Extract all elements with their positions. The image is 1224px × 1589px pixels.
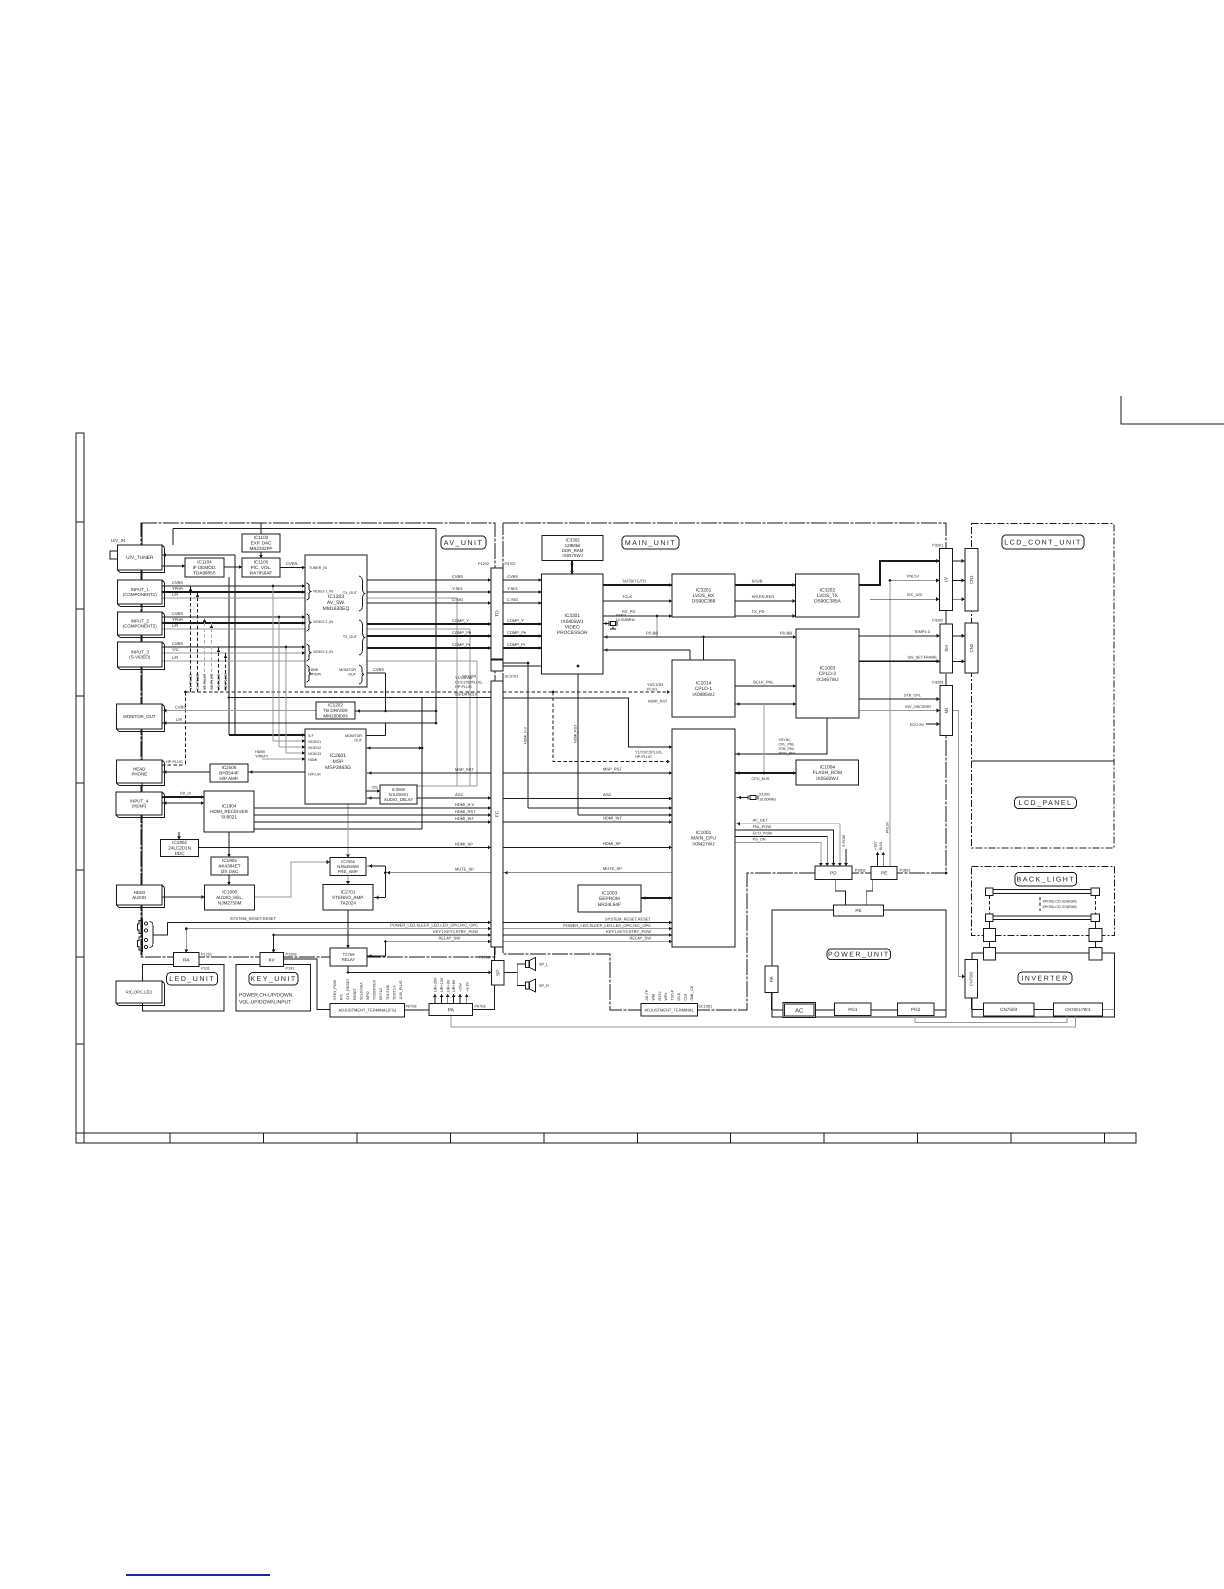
svg-text:PLUG: PLUG (647, 688, 657, 692)
svg-text:J100_PLUG: J100_PLUG (399, 980, 403, 1000)
wire HDMI_SP av (199, 846, 491, 848)
wire IC1104 to IC1105 (224, 566, 242, 568)
wire monitor loop vertical (435, 529, 437, 724)
wire INPUT_1 YPbPr (162, 591, 305, 593)
svg-text:STB_PNL: STB_PNL (779, 747, 795, 751)
svg-text:HDMI_RST: HDMI_RST (648, 700, 668, 704)
footer link line (126, 1574, 270, 1576)
wire hdmi rst path (503, 698, 670, 747)
wire HDMI_H,V av (254, 807, 491, 809)
connector ADJUSTMENT_TERMINAL(FG) (330, 1003, 404, 1017)
wire IC1904 to IC1905 (228, 832, 230, 857)
wire INPUT_2 L/R (162, 628, 470, 630)
svg-text:HP-PLUG: HP-PLUG (166, 760, 183, 764)
wire PS_ON (735, 843, 821, 867)
wire INPUT_3 L/R (162, 660, 477, 662)
brace IC1203 tx_out group1 (359, 576, 365, 611)
wire relay drop (384, 942, 386, 957)
wire video feeder V1 to IC2601 (272, 586, 274, 741)
svg-text:AGC: AGC (603, 792, 612, 797)
wire IC1203 monitor CVBS down (367, 672, 385, 674)
svg-text:SYSTEM_RESET,RESET: SYSTEM_RESET,RESET (605, 917, 652, 922)
svg-text:COMP_Pb: COMP_Pb (507, 630, 527, 635)
wire KV to adjustment terminal (284, 959, 331, 1010)
svg-text:PNL5V: PNL5V (886, 821, 890, 833)
svg-text:ECO_POW: ECO_POW (753, 831, 773, 835)
svg-text:MONITOR: MONITOR (339, 668, 356, 672)
connector PA audio (429, 1003, 473, 1015)
svg-text:Y-SIG: Y-SIG (452, 586, 463, 591)
svg-text:SE-PLUG: SE-PLUG (224, 673, 228, 690)
dashed lamp link right (1095, 895, 1097, 914)
drawing frame left ruler (76, 433, 84, 1133)
unit outline LED_UNIT (143, 965, 225, 1011)
wire TD to IC3301 COMP_Y (503, 623, 542, 625)
svg-text:IC1014: IC1014 (696, 680, 712, 686)
svg-text:VIDEO2: VIDEO2 (308, 746, 321, 750)
wire x422 vertical (421, 698, 423, 830)
wire IC1203 out COMP_Pr (367, 647, 491, 649)
connector lamp right upper (1089, 929, 1102, 942)
wire AGC main (503, 798, 672, 800)
svg-text:HDMI_SP: HDMI_SP (455, 841, 473, 846)
svg-text:AUDIO: AUDIO (132, 895, 146, 900)
wire IC1904 to IC1902 (178, 832, 180, 840)
svg-text:RELAY_SW: RELAY_SW (630, 936, 652, 941)
speaker SP_R (526, 982, 530, 989)
svg-text:IC1906: IC1906 (222, 890, 237, 895)
svg-text:HDMI_INT: HDMI_INT (603, 816, 622, 821)
wire ECO_POW (735, 836, 827, 866)
IC IC1003 EEPROM (578, 885, 641, 912)
wire TD to IC3301 COMP_Pb (503, 635, 542, 637)
svg-text:AGC: AGC (455, 792, 464, 797)
svg-text:C-SIG: C-SIG (452, 597, 463, 602)
wire BCLK_PNL (735, 685, 796, 687)
wire SYSTEM_RESET (168, 922, 491, 924)
svg-text:HDMI: HDMI (255, 750, 265, 754)
svg-text:PD,BB: PD,BB (780, 630, 792, 635)
wire STB_OPL (859, 698, 940, 700)
connector CN2 (965, 623, 978, 673)
svg-text:P6708: P6708 (406, 1005, 417, 1009)
svg-text:HDMI: HDMI (134, 890, 145, 895)
svg-text:TDA9885S: TDA9885S (193, 571, 215, 576)
svg-text:HDMI_H,V: HDMI_H,V (524, 726, 528, 744)
wire RX_PD (603, 615, 672, 617)
wire BIAS arrow (882, 852, 884, 866)
svg-text:I2S DAC: I2S DAC (221, 869, 240, 874)
wire PD,BB bus (603, 636, 796, 638)
wire INPUT_2 CVBS (162, 616, 305, 618)
wire TX_PD (735, 615, 796, 617)
wire IC1905 to IC1906 (228, 875, 230, 885)
svg-text:P6703: P6703 (475, 1005, 486, 1009)
svg-text:PNL5V: PNL5V (907, 575, 919, 579)
svg-text:VIDEO: VIDEO (565, 625, 580, 631)
wire INV to CN7502 (953, 711, 966, 977)
dashed V1-PLUG (190, 586, 192, 692)
svg-text:IC1004: IC1004 (820, 764, 836, 770)
dashed V3-PLUG (218, 647, 220, 692)
unit outline KEY_UNIT (236, 965, 311, 1011)
svg-text:MAIN_CPU: MAIN_CPU (691, 836, 716, 842)
relay T2769 (330, 948, 367, 966)
svg-text:CN7801/7801: CN7801/7801 (1065, 1007, 1092, 1012)
wire IC2601 to IC2504 (347, 804, 349, 858)
drawing frame bottom ruler (76, 1133, 1136, 1143)
dashed HP-PLUG (162, 764, 186, 766)
svg-text:TXD-P: TXD-P (671, 989, 675, 1000)
svg-text:IC1902: IC1902 (172, 840, 187, 845)
svg-text:IX3497WJ: IX3497WJ (816, 677, 839, 683)
svg-text:VIDEO1: VIDEO1 (308, 740, 321, 744)
svg-text:P3202: P3202 (932, 619, 943, 623)
svg-text:IX8427WJ: IX8427WJ (692, 841, 715, 847)
wire S-POW (845, 849, 847, 866)
svg-text:DS90C385A: DS90C385A (814, 599, 841, 605)
wire TA/TB/TC/TD (603, 584, 672, 586)
svg-text:KEY1,KEY2,STBY_POW: KEY1,KEY2,STBY_POW (433, 929, 478, 934)
svg-text:OUT: OUT (348, 673, 356, 677)
connector AC inlet (783, 1002, 815, 1017)
wire CN7502 drop (970, 998, 972, 1010)
connector RA (173, 953, 199, 967)
wire MUTE_SP main (503, 872, 672, 874)
svg-text:MSP_RST: MSP_RST (603, 767, 622, 772)
svg-text:I2S-DAT/CLK: I2S-DAT/CLK (455, 693, 478, 697)
brace IC1203 monitor out (359, 665, 364, 684)
wire HDMI_H,V to CPU (528, 807, 672, 809)
svg-text:L/R: L/R (172, 623, 178, 628)
svg-text:S-F: S-F (308, 734, 315, 738)
wire stub to IC1103 (260, 523, 262, 534)
svg-text:VIDEO-1_IN: VIDEO-1_IN (313, 590, 333, 594)
IC IC3202 LVDS TX (796, 574, 859, 617)
wire S sound to IC2601 (229, 734, 305, 736)
wire ECO-9V (926, 723, 940, 725)
svg-text:S-POW: S-POW (842, 834, 846, 847)
svg-text:COMP_Pb: COMP_Pb (452, 630, 472, 635)
dashed C1-PLUG (197, 592, 199, 692)
IC IC1103 EXP DAC (242, 534, 280, 552)
svg-text:TX_OUT: TX_OUT (343, 591, 358, 595)
svg-text:CVBS: CVBS (452, 574, 463, 579)
svg-text:HEAD: HEAD (133, 766, 145, 771)
connector ADJUSTMENT_TERMINAL main (641, 1004, 698, 1017)
wire inverter bottom bus (972, 1009, 984, 1011)
wire video feeder V3 to IC2601 (285, 647, 287, 753)
wire HDMI_SP main (503, 846, 672, 848)
svg-text:TD: TD (495, 610, 500, 617)
svg-text:P3201: P3201 (932, 544, 943, 548)
wire HDMI_H,V vertical (527, 663, 529, 808)
wire into IC1202 (356, 710, 436, 712)
svg-text:ADJUSTMENT_TERMINAL: ADJUSTMENT_TERMINAL (644, 1007, 694, 1012)
connector lamp left upper (983, 929, 995, 942)
wire PA to SP (473, 985, 495, 1009)
svg-text:DC8: DC8 (677, 993, 681, 1000)
svg-text:GML_CK: GML_CK (690, 985, 694, 1000)
jack INPUT_2 COMPONENT2 (120, 615, 165, 638)
wire I2S-DAT/CLK bus (229, 697, 491, 699)
wire PA audio return (451, 1016, 1075, 1027)
wire IC1103 to IC1105 (260, 552, 262, 558)
wire IC2601 monitor out up (366, 735, 385, 737)
wire IC3301 second ctrl (603, 649, 690, 651)
wire TD to IC3301 C-SIG (503, 602, 542, 604)
dashed C2-PLUG (211, 623, 213, 692)
svg-text:Y3/C1/S3: Y3/C1/S3 (647, 683, 663, 687)
svg-text:SP: SP (495, 970, 500, 976)
brace IC1203 tx_out group2 (359, 620, 365, 655)
wire AGC av (417, 797, 491, 799)
IC IC1906 audio select (205, 885, 255, 910)
svg-text:SP_L: SP_L (539, 963, 548, 967)
svg-text:FLASH_ROM: FLASH_ROM (813, 770, 842, 776)
svg-text:KV: KV (269, 957, 276, 962)
svg-text:BCLK_PNL: BCLK_PNL (753, 680, 774, 685)
svg-text:HDMI_RECEIVER: HDMI_RECEIVER (210, 809, 248, 814)
svg-text:24LC2D1N: 24LC2D1N (168, 846, 191, 851)
wire y829 hdmi int join (254, 828, 422, 830)
svg-text:IX8375WJ: IX8375WJ (562, 553, 582, 558)
svg-text:PE: PE (855, 908, 861, 913)
svg-text:AC: AC (795, 1007, 804, 1014)
connector PA power unit (765, 966, 778, 992)
svg-text:P1251: P1251 (201, 953, 212, 957)
svg-text:V1-PLUG: V1-PLUG (189, 674, 193, 690)
connector TD (491, 568, 503, 659)
wire IC1203 out COMP_Y (367, 623, 491, 625)
wire AC_DET (735, 824, 840, 866)
switch S1002 reset (138, 937, 143, 950)
IC IC3301 video processor (542, 574, 604, 674)
IC IC1202 TB driver (316, 702, 355, 719)
connector PG2 (897, 1003, 934, 1016)
svg-text:R/G/B: R/G/B (752, 578, 763, 583)
wire connector link left (988, 941, 990, 947)
wire relay to SP (347, 966, 349, 972)
svg-text:Y/Pb/Pr: Y/Pb/Pr (255, 755, 269, 759)
jack INPUT_1 COMPONENT1 (120, 583, 165, 607)
svg-text:PROCESSOR: PROCESSOR (557, 630, 588, 636)
wire HDMI_RST av (254, 814, 491, 816)
svg-text:CVBS: CVBS (172, 611, 183, 616)
wire HDMI_RST vertical (577, 666, 579, 815)
svg-text:4POS(LCD-32AE5M): 4POS(LCD-32AE5M) (1043, 900, 1077, 904)
svg-text:RELAY: RELAY (342, 957, 356, 962)
svg-text:AUDIO_SEL.: AUDIO_SEL. (216, 895, 243, 900)
wire IC2701 to relay (347, 910, 349, 948)
svg-text:MI: MI (944, 708, 949, 713)
svg-text:KEY1/2: KEY1/2 (379, 988, 383, 1000)
wire CPU_BUS (763, 704, 765, 773)
svg-text:INV_OSC/ERR: INV_OSC/ERR (905, 705, 931, 709)
connector CN1 (965, 548, 978, 611)
svg-text:BR24L64F: BR24L64F (598, 902, 621, 908)
wire FLASH_ROM bus (735, 772, 796, 774)
svg-text:P1802: P1802 (855, 869, 866, 873)
svg-text:IC1105: IC1105 (254, 560, 269, 565)
wire audio L/R feeders down (456, 598, 458, 786)
svg-text:LV: LV (944, 576, 949, 582)
svg-text:H/P-L/R: H/P-L/R (308, 773, 321, 777)
svg-text:SP_R: SP_R (539, 984, 549, 988)
dashed V2-PLUG (204, 617, 206, 692)
IC IC1003 CPLD-2 (796, 629, 859, 718)
svg-text:HP-PLUG: HP-PLUG (455, 685, 472, 689)
svg-text:IC1202: IC1202 (328, 703, 343, 708)
svg-text:IC3202: IC3202 (820, 587, 836, 593)
svg-text:HDMI_RST: HDMI_RST (574, 724, 578, 743)
svg-text:LCD_PANEL: LCD_PANEL (1019, 800, 1073, 807)
svg-text:IC2506: IC2506 (222, 765, 237, 770)
svg-text:MONITOR_OUT: MONITOR_OUT (123, 714, 156, 719)
svg-text:HDMI_INT: HDMI_INT (455, 816, 474, 821)
dashed label divider (1039, 897, 1041, 911)
svg-text:INPUT_1: INPUT_1 (131, 587, 150, 592)
svg-text:CVBS: CVBS (172, 641, 183, 646)
wire into tuner (162, 554, 235, 556)
wire lamp to connector right (1095, 922, 1097, 929)
svg-text:CVBS: CVBS (286, 561, 298, 566)
svg-text:POWER_LED,SLEEP_LED,LED_OPC,R/: POWER_LED,SLEEP_LED,LED_OPC,R/C_OPC (563, 923, 651, 928)
svg-text:IC1104: IC1104 (197, 560, 212, 565)
svg-text:SC3701: SC3701 (505, 675, 519, 679)
svg-text:MSP3463G: MSP3463G (325, 765, 351, 771)
svg-text:IC1904: IC1904 (222, 804, 237, 809)
brace IC1203 video1 pins (307, 583, 311, 600)
svg-text:HDMI_SP: HDMI_SP (603, 841, 621, 846)
wire HDMI AUDIO to IC1906 (162, 896, 205, 898)
svg-text:STB_OPL: STB_OPL (904, 693, 921, 697)
svg-text:S/S_SET,FRAME: S/S_SET,FRAME (907, 656, 937, 660)
svg-text:RELAY_SW: RELAY_SW (439, 935, 461, 940)
svg-text:P1209: P1209 (286, 953, 297, 957)
svg-text:DS90C388: DS90C388 (692, 599, 716, 605)
dashed lamp link left (988, 895, 990, 914)
svg-text:PHONE: PHONE (131, 772, 147, 777)
label INVERTER (1018, 972, 1072, 984)
wire IC1203 out COMP_Pb (367, 635, 491, 637)
svg-text:VIDEO-2_IN: VIDEO-2_IN (313, 620, 333, 624)
svg-text:CPLD-2: CPLD-2 (819, 671, 836, 677)
lamp FL2 backlight (986, 914, 994, 922)
IC IC2506 headphone amp (210, 764, 248, 782)
jack tuner stub (110, 551, 118, 559)
svg-text:OUT: OUT (354, 739, 362, 743)
wire IC1202 out to MONITOR_OUT CVBS (162, 710, 316, 712)
svg-text:Y-SIG: Y-SIG (507, 586, 518, 591)
connector KV (260, 953, 284, 967)
svg-text:EEPROM: EEPROM (599, 896, 620, 902)
wire tuner to IC1104 (162, 565, 185, 567)
IC IC3302 DDR RAM (542, 535, 603, 560)
label AV_UNIT (441, 536, 486, 549)
IC IC3201 LVDS RX (672, 574, 735, 617)
svg-text:H/V,EN,REG: H/V,EN,REG (752, 594, 775, 599)
svg-text:MM1606XN: MM1606XN (323, 714, 347, 719)
svg-text:P3702: P3702 (505, 562, 516, 566)
wire HDMI YPbPr to IC2601 (262, 758, 305, 760)
IC IC1905 I2S DAC (211, 857, 248, 875)
wire VSYNC group (735, 718, 827, 754)
svg-text:MAIN_UNIT: MAIN_UNIT (625, 540, 676, 547)
connector PE (871, 866, 897, 879)
svg-text:IC1003: IC1003 (602, 890, 618, 896)
svg-text:POWER,CH-UP/DOWN,: POWER,CH-UP/DOWN, (239, 993, 294, 999)
wire relay feed (385, 941, 387, 943)
svg-text:V2-PLUG: V2-PLUG (203, 674, 207, 690)
IC IC1014 CPLD-1 (672, 660, 735, 717)
svg-text:Y1/Y2/C2PLUG,: Y1/Y2/C2PLUG, (635, 751, 663, 755)
svg-text:IC3201: IC3201 (696, 587, 712, 593)
wire H/V,EN,REG (735, 600, 796, 602)
svg-text:P2708: P2708 (479, 956, 490, 960)
svg-text:CVBS: CVBS (507, 574, 518, 579)
svg-text:YPbPr: YPbPr (172, 617, 184, 622)
svg-text:(HDMI): (HDMI) (132, 804, 147, 809)
svg-text:6POS(LCD-37AE5M): 6POS(LCD-37AE5M) (1043, 905, 1077, 909)
connector SP (492, 960, 504, 985)
svg-text:P101: P101 (201, 967, 210, 971)
wire INPUT_2 YPbPr (162, 622, 305, 624)
svg-text:INPUT_4: INPUT_4 (130, 798, 149, 803)
wire drop to RA (185, 929, 187, 953)
svg-text:PIC. VOL.: PIC. VOL. (251, 565, 272, 570)
svg-text:I2S: I2S (372, 786, 378, 790)
svg-text:BACK_LIGHT: BACK_LIGHT (1017, 876, 1076, 883)
svg-text:TA/TB/TC/TD: TA/TB/TC/TD (622, 578, 646, 583)
svg-text:CN2: CN2 (969, 643, 974, 652)
dashed SE-PLUG (225, 653, 227, 692)
connector FC (491, 681, 503, 947)
wire IC3900 return (367, 797, 380, 799)
wire HP amp to HEADPHONE (162, 771, 210, 773)
wire HDMI_INT main (503, 821, 672, 823)
svg-text:CVBS: CVBS (373, 667, 384, 672)
wire R/G/B (735, 584, 796, 586)
svg-text:CVBS: CVBS (175, 705, 186, 710)
junction dots (272, 585, 275, 588)
svg-text:CPLD-1: CPLD-1 (695, 686, 712, 692)
connector SC1204/SC3701 (491, 660, 503, 671)
svg-text:X3301: X3301 (616, 614, 627, 618)
connector MI (940, 686, 953, 736)
wire IC1104 AGC down (228, 577, 230, 735)
svg-text:CN7503: CN7503 (1000, 1007, 1017, 1012)
svg-text:X1001: X1001 (759, 793, 770, 797)
svg-text:HDMI_H,V: HDMI_H,V (455, 802, 474, 807)
svg-text:HDMI_RST: HDMI_RST (455, 809, 476, 814)
connector CN7502 (965, 960, 977, 998)
svg-text:NJM2750M: NJM2750M (218, 901, 242, 906)
wire MSP_RST main (503, 772, 672, 774)
IC IC1105 PIC VOL (242, 558, 280, 577)
svg-text:U/V_IN: U/V_IN (111, 538, 125, 543)
wire TEMP1-3 (859, 635, 940, 637)
wire TD to IC3301 COMP_Pr (503, 647, 542, 649)
svg-text:MSP_RST: MSP_RST (455, 767, 474, 772)
connector LV (939, 549, 952, 611)
connector lamp left lower (983, 948, 995, 960)
label KEY_UNIT (249, 973, 298, 986)
wire PG elbow (915, 1016, 1067, 1023)
svg-text:V3-PLUG: V3-PLUG (217, 674, 221, 690)
svg-text:PE: PE (881, 870, 887, 875)
svg-text:VIDEO-3_IN: VIDEO-3_IN (313, 650, 333, 654)
